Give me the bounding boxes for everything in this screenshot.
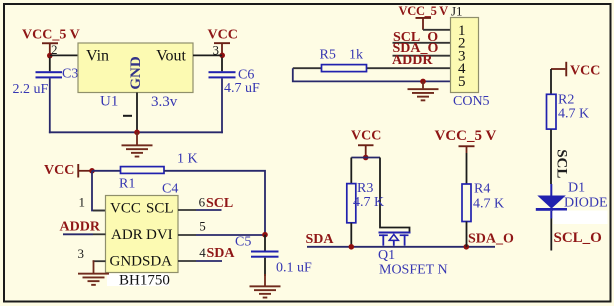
svg-text:VCC_5 V: VCC_5 V [399,4,449,18]
svg-text:SCL: SCL [206,196,233,211]
wire SDA_O to J1 pin3 [393,55,451,57]
svg-text:3.3v: 3.3v [151,94,178,110]
wire ADDR row through R5 to J1 pin4 [293,67,451,69]
svg-text:R1: R1 [119,177,135,192]
svg-text:VCC: VCC [570,64,600,79]
resistor R5 [320,48,364,63]
resistor R1 [119,152,198,192]
ADDR wire to ADR pin [63,233,93,235]
wire SCL_O to J1 pin2 [393,42,451,44]
R3 top lead [350,158,352,184]
wire VCC tee [351,157,380,159]
svg-text:SDA_O: SDA_O [468,232,514,247]
junction node R4/SDA_O [464,244,470,250]
regulator U1 [78,43,193,110]
junction node at C5 [262,232,268,238]
svg-text:VCC_5 V: VCC_5 V [435,128,497,144]
capacitor C3 [13,58,79,98]
svg-text:BH1750: BH1750 [119,273,170,289]
svg-text:Vin: Vin [86,48,109,65]
pin 1 dash (U1 GND) [123,115,132,117]
svg-text:ADDR: ADDR [392,53,433,68]
svg-text:CON5: CON5 [453,94,490,109]
C5 lower lead [264,258,266,276]
white value box under BH1750 [107,274,169,287]
svg-text:R5: R5 [320,48,336,63]
wire C6 down to ground rail [221,78,223,133]
capacitor C6 [209,58,261,97]
wire VCC_5V to J1 pin1 [423,29,451,31]
svg-text:C3: C3 [62,67,78,82]
svg-text:4.7 uF: 4.7 uF [224,81,260,96]
power VCC (above R3/Q1) [351,129,381,161]
svg-text:3: 3 [78,246,85,261]
svg-text:SDA: SDA [306,232,335,247]
svg-text:1: 1 [79,195,86,210]
svg-text:Q1: Q1 [378,248,395,263]
resistor R2 [547,93,590,130]
ground symbol (U1) [122,132,153,157]
MOSFET Q1 [378,232,448,278]
svg-text:4.7 K: 4.7 K [473,197,504,212]
svg-text:R4: R4 [474,182,490,197]
svg-text:VCC: VCC [44,163,74,178]
svg-text:SDA: SDA [142,253,172,269]
svg-text:1 K: 1 K [177,152,198,167]
svg-text:4.7 K: 4.7 K [353,195,384,210]
power VCC (right column, rotated) [551,62,600,79]
wire C3 down to ground rail [49,78,51,133]
power VCC_5V (top left) [22,28,80,59]
wire VCC node to R1 [92,170,121,172]
R4 bottom lead [466,222,468,247]
D1 lower lead [550,211,552,219]
power VCC (left, R1 row) [44,163,95,178]
diode D1 [536,181,608,211]
power VCC_5V (J1) [399,4,449,30]
resistor R3 [347,181,384,223]
svg-text:SCL: SCL [554,149,570,178]
svg-text:0.1 uF: 0.1 uF [276,261,312,276]
junction node R3/SDA [349,244,355,250]
svg-text:VCC: VCC [208,28,238,43]
BH1750 GND pin wire [93,260,106,262]
svg-text:ADR: ADR [111,227,143,243]
svg-text:VCC_5 V: VCC_5 V [22,28,80,43]
pin 4 lead (SDA) [178,260,196,262]
svg-text:5: 5 [199,219,206,234]
wire VCC_5V node to Vin [50,54,78,56]
svg-text:J1: J1 [451,4,463,19]
R4 top lead [466,153,468,184]
svg-text:C5: C5 [235,235,251,250]
svg-text:4: 4 [199,245,206,260]
svg-text:SDA: SDA [207,246,236,261]
R3 bottom lead [350,223,352,247]
wire R2 to D1 [550,130,552,185]
IC BH1750 [106,196,179,273]
wire VCC node down to BH1750 pin 1 [92,171,106,211]
svg-text:GND: GND [128,56,144,90]
svg-text:2.2 uF: 2.2 uF [13,82,49,97]
svg-text:D1: D1 [568,181,585,196]
connector J1 CON5 [451,18,479,93]
svg-text:VCC: VCC [351,129,381,144]
svg-text:SCL: SCL [146,201,174,217]
pin 6 lead (SCL) [178,209,196,211]
ground symbol (C5) [250,274,281,299]
wire R1 to corner and down to C5 node [164,171,265,235]
junction node at J1 ground [420,79,426,85]
SDA rail wire [307,246,495,248]
svg-text:U1: U1 [100,94,118,110]
svg-text:VCC: VCC [110,201,141,217]
svg-text:Vout: Vout [156,48,186,65]
svg-text:DVI: DVI [146,227,173,243]
pin 5 lead (DVI) to C5 node [178,234,196,236]
svg-text:1k: 1k [349,48,363,63]
svg-text:4.7 K: 4.7 K [558,107,589,122]
ground rail wire under U1 [49,131,223,133]
wire Vout to VCC node [193,54,222,56]
U1 GND pin lead [136,93,138,133]
svg-text:5: 5 [458,74,466,90]
svg-text:GND: GND [110,253,143,269]
white value box (D1) [553,211,608,225]
resistor R4 [462,182,504,222]
power VCC (above C6) [208,28,238,59]
R2 top lead [550,69,552,94]
svg-text:6: 6 [199,195,206,210]
power VCC_5V (above R4) [435,128,497,153]
svg-text:ADDR: ADDR [60,220,101,235]
wire R5 left corner down and across to J1 pin5 [293,68,451,81]
svg-text:R3: R3 [357,181,373,196]
junction node at U1 GND [134,130,140,136]
Q1 gate lead [380,158,410,232]
ground symbol (J1) [408,81,439,101]
svg-text:MOSFET N: MOSFET N [379,263,448,278]
ground symbol (BH1750) [78,273,109,286]
svg-text:SCL_O: SCL_O [554,230,602,246]
svg-text:DIODE: DIODE [564,196,608,211]
capacitor C5 [235,235,312,276]
svg-text:R2: R2 [558,93,574,108]
svg-text:C4: C4 [162,182,178,197]
